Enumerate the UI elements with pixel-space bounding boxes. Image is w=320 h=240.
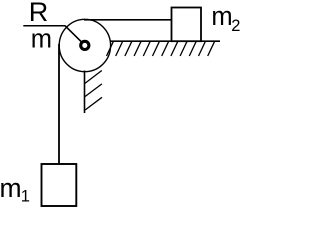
svg-text:m: m: [31, 25, 52, 53]
svg-text:m: m: [0, 173, 22, 203]
svg-text:2: 2: [231, 17, 240, 35]
svg-text:R: R: [29, 0, 49, 27]
svg-text:1: 1: [21, 188, 30, 206]
svg-text:m: m: [211, 3, 232, 31]
